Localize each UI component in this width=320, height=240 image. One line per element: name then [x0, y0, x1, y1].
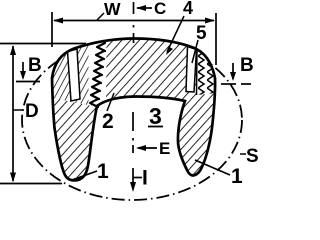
svg-text:W: W: [104, 0, 121, 19]
svg-text:S: S: [246, 146, 259, 167]
svg-text:C: C: [154, 0, 166, 18]
svg-text:1: 1: [231, 165, 243, 188]
svg-text:4: 4: [183, 0, 193, 18]
svg-text:3: 3: [149, 103, 162, 129]
svg-text:B: B: [240, 55, 254, 76]
svg-text:I: I: [142, 167, 148, 190]
svg-text:1: 1: [97, 160, 109, 183]
svg-text:5: 5: [196, 23, 207, 44]
svg-text:D: D: [25, 101, 39, 122]
svg-text:2: 2: [102, 110, 114, 133]
svg-text:B: B: [28, 55, 42, 76]
svg-text:E: E: [159, 139, 170, 158]
